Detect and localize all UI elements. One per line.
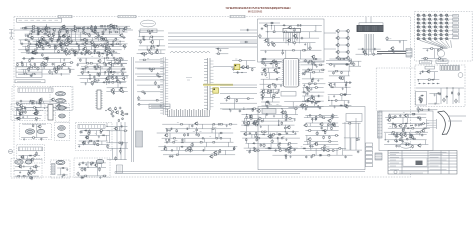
- ground: [294, 132, 296, 135]
- wire W401: [258, 121, 260, 125]
- audio transformer oval C: [56, 106, 66, 110]
- box C oval: [96, 159, 104, 163]
- wire W369: [184, 138, 186, 142]
- resistor R326: [245, 138, 247, 141]
- capacitor C153 (electrolytic): [443, 98, 446, 103]
- wire W260: [303, 60, 325, 62]
- antenna terminal: [9, 30, 14, 40]
- transistor Q122: [252, 122, 256, 126]
- capacitor C190: [219, 150, 221, 153]
- wire W442: [327, 126, 329, 130]
- diode D42: [310, 101, 313, 103]
- connector CN1 yoke: [406, 49, 412, 58]
- transistor Q67: [390, 47, 394, 51]
- resistor R392: [62, 174, 66, 176]
- capacitor C239: [395, 145, 397, 148]
- wire W205: [106, 80, 126, 82]
- wire W98: [168, 43, 257, 45]
- resistor R351: [315, 144, 318, 146]
- wire W443: [305, 130, 338, 132]
- value label: [258, 116, 260, 118]
- capacitor C54: [60, 45, 62, 48]
- ground: [334, 106, 336, 109]
- wire W486: [28, 171, 30, 176]
- resistor R44: [42, 46, 44, 50]
- capacitor C55: [40, 43, 43, 45]
- capacitor C122: [239, 109, 241, 112]
- wire W409: [276, 132, 278, 135]
- transistor Q19: [66, 36, 70, 40]
- capacitor C156: [418, 96, 421, 98]
- node J6: [58, 34, 59, 35]
- ground: [18, 110, 20, 113]
- value label: [314, 29, 316, 31]
- capacitor C157: [437, 92, 440, 94]
- capacitor C137: [311, 78, 314, 80]
- wire W399: [242, 120, 294, 122]
- wire W19: [49, 27, 51, 34]
- resistor R138: [89, 62, 94, 64]
- value label: [174, 140, 176, 142]
- capacitor C154 (electrolytic): [455, 99, 458, 104]
- resistor R178: [63, 107, 68, 109]
- wire W119: [306, 43, 308, 51]
- wire W23: [39, 38, 41, 40]
- wire W96: [168, 36, 257, 38]
- resistor R101: [151, 45, 155, 47]
- value label: [95, 133, 96, 135]
- wire W16: [66, 34, 68, 37]
- capacitor C69 (electrolytic): [259, 34, 262, 39]
- highlight pad Y1 (yellow): [234, 64, 240, 69]
- wire W211: [131, 57, 133, 162]
- resistor R307: [258, 118, 262, 120]
- wire W178: [15, 66, 71, 68]
- resistor R58: [106, 54, 108, 57]
- resistor R325: [257, 137, 261, 139]
- wire W389: [282, 109, 284, 115]
- resistor R331: [287, 147, 291, 149]
- capacitor C11: [122, 36, 125, 38]
- wire W200: [109, 71, 127, 73]
- resistor R227: [345, 64, 348, 66]
- wire W403: [267, 125, 269, 132]
- resistor R355: [287, 148, 292, 150]
- wire W148: [104, 58, 106, 64]
- resistor R218: [313, 83, 317, 85]
- wire W34: [101, 44, 103, 46]
- wire W331: [95, 131, 97, 136]
- capacitor C176: [121, 142, 124, 144]
- wire W245: [261, 72, 280, 74]
- wire W156: [82, 69, 84, 72]
- wire W90: [139, 45, 165, 47]
- capacitor C181: [186, 128, 189, 130]
- value label: [110, 32, 112, 34]
- wire W35: [79, 44, 81, 46]
- wire W340: [116, 122, 118, 160]
- capacitor C113: [121, 64, 123, 67]
- wire W334: [79, 140, 108, 142]
- capacitor C152: [446, 95, 448, 98]
- wire W306: [348, 60, 361, 62]
- capacitor C121: [236, 71, 239, 73]
- wire W413: [251, 134, 253, 138]
- resistor R89: [96, 52, 100, 54]
- value label: [209, 136, 211, 138]
- capacitor C128 (electrolytic): [273, 93, 276, 98]
- resistor R75: [58, 32, 60, 35]
- value label: [278, 77, 280, 79]
- capacitor C25: [104, 45, 107, 47]
- resistor R114: [270, 42, 274, 44]
- wire W182: [24, 69, 26, 74]
- capacitor C172: [111, 112, 113, 115]
- transistor Q91: [311, 96, 315, 100]
- resistor R352: [326, 150, 330, 152]
- value label: [308, 48, 310, 50]
- resistor R217: [311, 79, 313, 83]
- capacitor C9 (electrolytic): [82, 30, 85, 35]
- box B oval: [56, 160, 65, 164]
- resistor R149: [109, 71, 113, 73]
- wire W47: [18, 49, 122, 51]
- ground: [142, 37, 144, 39]
- node J41: [328, 100, 329, 101]
- wire W33: [20, 43, 128, 45]
- wire W21: [58, 34, 60, 39]
- wire W1: [25, 25, 130, 27]
- capacitor C42 (electrolytic): [94, 25, 97, 30]
- ground: [273, 115, 275, 118]
- transistor Q52: [293, 34, 297, 38]
- transistor Q65: [345, 56, 349, 60]
- wire W235: [233, 99, 235, 110]
- resistor R157: [111, 82, 115, 84]
- transistor Q27: [45, 42, 49, 46]
- node J61: [256, 134, 257, 135]
- resistor R383: [406, 138, 408, 141]
- transistor Q138: [399, 133, 403, 137]
- IC U6 vertical regulator: [47, 105, 55, 121]
- wire W24: [91, 38, 93, 40]
- transistor Q53: [287, 39, 291, 43]
- ground: [287, 151, 289, 154]
- resistor R350: [328, 141, 332, 143]
- label POWER SW: [425, 66, 435, 69]
- resistor R2: [62, 25, 66, 27]
- wire W249: [260, 83, 282, 85]
- wire W358: [188, 124, 190, 129]
- ground: [85, 83, 87, 86]
- transistor Q132: [319, 122, 323, 126]
- wire W216: [135, 79, 165, 81]
- capacitor C231: [415, 124, 417, 127]
- capacitor C104 (electrolytic): [60, 65, 63, 70]
- resistor R63: [47, 27, 50, 29]
- ground: [253, 121, 255, 124]
- ground: [63, 59, 65, 61]
- resistor R380: [412, 136, 414, 139]
- wire W45: [109, 46, 111, 51]
- node J24: [104, 58, 105, 59]
- wire W133: [365, 17, 367, 23]
- capacitor C175: [120, 125, 123, 127]
- transistor Q17: [82, 38, 86, 42]
- power supply box: [415, 65, 465, 107]
- wire W445: [305, 134, 339, 136]
- wire W5: [33, 26, 35, 29]
- resistor R86: [99, 44, 103, 46]
- capacitor C76: [112, 57, 115, 59]
- resistor R21: [87, 33, 92, 35]
- value label: [211, 152, 213, 154]
- wire W375: [192, 142, 194, 147]
- wire W412: [253, 134, 255, 138]
- node J18: [120, 41, 121, 42]
- transistor Q36: [52, 28, 56, 32]
- node J12: [28, 49, 29, 50]
- resistor R80: [39, 40, 44, 42]
- resistor R160: [17, 63, 19, 67]
- resistor R376: [412, 145, 414, 149]
- wire W168: [81, 81, 126, 83]
- wire W468: [408, 132, 410, 135]
- resistor R199: [236, 99, 238, 103]
- resistor R38: [28, 43, 32, 45]
- wire W77: [78, 45, 80, 53]
- resistor R143: [84, 66, 89, 68]
- wire W327: [22, 123, 46, 125]
- capacitor C238: [405, 143, 408, 145]
- node J56: [286, 114, 287, 115]
- resistor R18: [27, 34, 29, 38]
- capacitor C194 (electrolytic): [285, 114, 288, 119]
- transistor Q70: [62, 63, 66, 67]
- wire W466: [402, 128, 404, 132]
- capacitor C247: [396, 135, 399, 137]
- resistor R134: [113, 62, 117, 64]
- transistor Q144: [94, 163, 98, 167]
- wire W300: [329, 104, 351, 106]
- capacitor C202 (electrolytic): [271, 134, 274, 139]
- diode D17: [140, 53, 143, 55]
- vertical bus with stubs: [160, 57, 168, 115]
- diode D34: [269, 63, 272, 65]
- wire W195: [43, 108, 45, 109]
- capacitor C146: [317, 105, 320, 107]
- resistor R195: [137, 104, 140, 106]
- diode D62: [319, 154, 322, 156]
- resistor R233: [345, 83, 347, 86]
- wire W232: [220, 102, 257, 104]
- diode D48: [84, 130, 87, 132]
- capacitor C184: [201, 137, 204, 139]
- wire W236: [222, 108, 253, 110]
- wire W157: [99, 69, 101, 74]
- wire W170: [106, 82, 108, 85]
- transistor Q31: [85, 50, 89, 54]
- wire W268: [302, 78, 324, 80]
- capacitor C90 (electrolytic): [116, 78, 119, 83]
- resistor R52: [70, 49, 74, 51]
- wire W344: [119, 126, 121, 130]
- resistor R353: [332, 150, 335, 152]
- ground: [16, 103, 18, 106]
- capacitor C70: [300, 37, 303, 39]
- capacitor C72: [373, 48, 376, 50]
- resistor R26: [94, 37, 98, 39]
- resistor R224: [305, 106, 309, 108]
- diode D19: [282, 24, 285, 26]
- diode D29: [109, 71, 112, 73]
- ground: [315, 102, 317, 105]
- wire W309: [420, 71, 438, 73]
- resistor R360: [412, 113, 416, 115]
- capacitor C36: [64, 50, 66, 53]
- ground: [303, 84, 305, 87]
- resistor R10: [117, 28, 121, 30]
- wire W382: [161, 149, 234, 151]
- resistor R192: [158, 85, 160, 88]
- resistor R188: [113, 92, 115, 94]
- diode D49: [102, 134, 105, 136]
- wire W381: [233, 147, 235, 150]
- audio transformer oval A: [56, 92, 66, 96]
- transistor Q73: [39, 98, 43, 102]
- wire W420: [270, 143, 272, 148]
- transistor Q99: [419, 98, 423, 102]
- resistor R272: [118, 142, 122, 144]
- wire W59: [78, 28, 80, 32]
- wire W349: [125, 143, 127, 149]
- wire W248: [263, 79, 265, 84]
- capacitor C155: [419, 98, 421, 101]
- resistor R132: [119, 57, 122, 59]
- diode D26: [31, 57, 34, 59]
- transistor Q81: [240, 65, 244, 69]
- wire W242: [272, 64, 274, 68]
- transistor Q30: [86, 50, 90, 54]
- resistor R314: [260, 120, 264, 122]
- wire W470: [419, 132, 421, 135]
- wire W289: [328, 82, 352, 84]
- capacitor C41: [47, 27, 50, 29]
- ground: [226, 99, 228, 102]
- value label: [122, 73, 124, 75]
- capacitor C204 (electrolytic): [271, 139, 274, 144]
- capacitor C53: [50, 40, 53, 42]
- capacitor C97: [34, 63, 36, 66]
- wire W386: [163, 154, 235, 156]
- transistor Q62: [335, 50, 339, 54]
- capacitor C246: [400, 136, 403, 138]
- wire W100: [215, 48, 228, 50]
- wire W281: [329, 58, 352, 60]
- transistor Q128: [303, 123, 307, 127]
- value label: [96, 67, 98, 69]
- transistor Q118: [213, 151, 217, 155]
- capacitor C80: [122, 68, 125, 70]
- wire W342: [124, 122, 126, 160]
- capacitor C123 (electrolytic): [275, 61, 278, 66]
- capacitor C43: [36, 27, 39, 29]
- resistor R362: [419, 118, 421, 121]
- node J36: [241, 72, 242, 73]
- wire W416: [246, 138, 248, 143]
- wire W142: [423, 48, 448, 50]
- wire W58: [20, 27, 125, 29]
- wire W66: [74, 32, 76, 41]
- wire W116: [268, 38, 270, 43]
- transistor Q125: [243, 132, 247, 136]
- transistor Q119: [256, 109, 260, 113]
- wire W52: [28, 50, 30, 54]
- resistor R135: [86, 62, 90, 64]
- capacitor C143: [311, 95, 314, 97]
- node J22: [267, 31, 268, 32]
- wire W67: [71, 32, 73, 41]
- resistor R184: [116, 76, 118, 79]
- capacitor C160: [21, 108, 23, 111]
- resistor R306: [249, 118, 253, 120]
- resistor R61: [88, 53, 92, 55]
- node J26: [122, 75, 123, 76]
- wire W362: [166, 129, 168, 133]
- resistor R225: [338, 58, 342, 60]
- value label: [301, 146, 303, 148]
- wire W55: [26, 53, 120, 55]
- resistor R99: [150, 36, 154, 38]
- wire W276: [302, 95, 323, 97]
- box A oval L: [15, 160, 23, 165]
- capacitor C75: [391, 49, 394, 51]
- resistor R236: [335, 100, 338, 102]
- diode D58: [278, 142, 281, 144]
- resistor R382: [394, 140, 397, 142]
- wire W368: [162, 137, 231, 139]
- resistor R109: [244, 41, 248, 43]
- wire W431: [358, 123, 360, 138]
- label H-DRIVE: [149, 104, 170, 108]
- resistor R60: [99, 54, 101, 58]
- transistor Q110: [107, 107, 111, 111]
- capacitor C240: [407, 143, 410, 145]
- wire W27: [19, 39, 119, 41]
- diode D59: [322, 130, 325, 132]
- wire W31: [20, 40, 22, 44]
- transistor Q41: [68, 41, 72, 45]
- resistor R181: [119, 60, 121, 63]
- resistor R281: [184, 133, 186, 137]
- resistor R202: [265, 73, 267, 77]
- resistor R137: [105, 63, 107, 66]
- capacitor C252: [81, 162, 84, 164]
- node J5: [38, 34, 39, 35]
- wire W70: [47, 41, 49, 45]
- resistor R379: [394, 126, 397, 128]
- value label: [200, 131, 202, 133]
- connector stack CN7-CN12: [366, 143, 373, 167]
- earth terminal circle: [9, 150, 13, 154]
- partition dashed boundary: [376, 68, 415, 111]
- ground: [61, 47, 63, 49]
- ground: [84, 168, 86, 171]
- transistor Q83: [226, 96, 230, 100]
- capacitor C130: [267, 101, 270, 103]
- capacitor C28: [93, 45, 96, 47]
- wire W171: [22, 57, 71, 59]
